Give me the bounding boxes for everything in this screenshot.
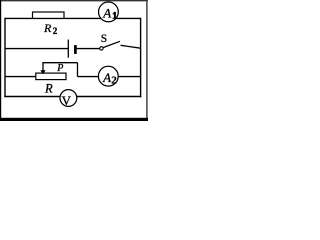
svg-text:V: V [62,93,72,108]
battery short thick plate [74,45,77,54]
wire middle left [5,48,68,50]
slider tap vertical [77,63,79,77]
ammeter A1 [99,2,119,22]
slider tap horizontal [42,62,77,64]
battery long plate [67,40,69,58]
svg-text:A: A [102,5,111,20]
svg-text:2: 2 [111,74,117,86]
wire top [5,17,141,19]
svg-text:P: P [56,63,63,74]
border frame right [146,0,148,121]
wire left vertical [4,18,6,98]
slider arrow P [42,63,44,71]
resistor R2 box [33,12,65,18]
border frame bottom bar [0,118,148,121]
wire lower-left to rheostat [5,76,37,78]
wire battery to switch pivot [77,48,100,50]
border frame top [0,0,148,2]
border frame left [0,0,2,121]
wire bottom [4,96,141,98]
ammeter A2 [98,66,118,86]
svg-text:A: A [102,70,111,85]
svg-text:S: S [101,33,107,45]
wire A2 to right [119,76,141,78]
voltmeter V [60,90,77,107]
wire right vertical [140,18,142,98]
switch blade [103,41,120,47]
wire tap to A2 [78,76,99,78]
switch pivot [100,47,103,50]
rheostat box R [36,73,66,80]
svg-text:R: R [44,81,53,95]
svg-text:R: R [43,21,52,35]
wire switch contact to right (gentle slope) [121,45,141,48]
svg-text:2: 2 [53,26,58,36]
